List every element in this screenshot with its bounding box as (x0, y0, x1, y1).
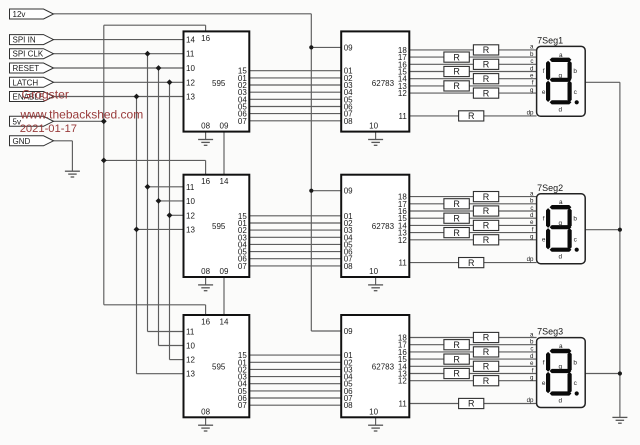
svg-text:13: 13 (186, 225, 195, 234)
svg-text:08: 08 (344, 401, 353, 410)
svg-text:b: b (573, 68, 577, 75)
svg-text:g: g (559, 72, 563, 79)
svg-text:12: 12 (398, 89, 407, 98)
svg-text:e: e (530, 73, 534, 80)
svg-text:R: R (453, 213, 460, 223)
svg-text:R: R (483, 376, 490, 386)
svg-text:13: 13 (186, 93, 195, 102)
svg-text:RESET: RESET (13, 64, 40, 73)
svg-text:e: e (530, 219, 534, 226)
svg-text:R: R (483, 60, 490, 70)
svg-text:12: 12 (186, 78, 195, 87)
svg-text:08: 08 (201, 407, 210, 416)
svg-text:11: 11 (398, 112, 407, 121)
svg-text:7Seg3: 7Seg3 (537, 327, 563, 337)
svg-text:R: R (483, 235, 490, 245)
svg-text:62783: 62783 (372, 222, 395, 231)
svg-text:R: R (483, 45, 490, 55)
svg-text:a: a (530, 190, 534, 197)
svg-text:10: 10 (369, 122, 378, 131)
svg-text:7Seg2: 7Seg2 (537, 183, 563, 193)
svg-text:08: 08 (344, 117, 353, 126)
svg-text:14: 14 (220, 318, 229, 327)
svg-text:12v: 12v (13, 10, 26, 19)
svg-text:b: b (573, 216, 577, 223)
svg-text:R: R (483, 333, 490, 343)
svg-text:07: 07 (238, 262, 247, 271)
svg-text:e: e (542, 236, 546, 243)
svg-text:10: 10 (186, 64, 195, 73)
svg-text:a: a (559, 199, 563, 206)
svg-text:R: R (483, 192, 490, 202)
svg-text:12: 12 (186, 356, 195, 365)
svg-text:f: f (532, 226, 534, 233)
svg-text:11: 11 (186, 50, 195, 59)
svg-text:11: 11 (398, 259, 407, 268)
svg-text:11: 11 (186, 183, 195, 192)
svg-text:R: R (483, 362, 490, 372)
svg-text:R: R (453, 52, 460, 62)
svg-text:10: 10 (369, 407, 378, 416)
svg-text:R: R (453, 199, 460, 209)
svg-text:g: g (530, 87, 534, 94)
svg-text:09: 09 (220, 122, 229, 131)
svg-text:595: 595 (212, 363, 226, 372)
svg-text:c: c (530, 205, 533, 212)
svg-text:f: f (532, 367, 534, 374)
svg-text:Grogster: Grogster (22, 88, 69, 102)
svg-text:12: 12 (398, 377, 407, 386)
svg-text:dp: dp (527, 109, 534, 116)
svg-text:e: e (542, 380, 546, 387)
svg-text:R: R (453, 228, 460, 238)
svg-text:www.thebackshed.com: www.thebackshed.com (20, 107, 144, 121)
svg-text:GND: GND (13, 137, 31, 146)
svg-text:b: b (530, 198, 534, 205)
svg-text:595: 595 (212, 222, 226, 231)
svg-text:LATCH: LATCH (13, 78, 39, 87)
svg-text:a: a (530, 44, 534, 51)
svg-text:R: R (483, 221, 490, 231)
svg-text:f: f (543, 216, 545, 223)
svg-text:10: 10 (369, 267, 378, 276)
svg-text:07: 07 (238, 117, 247, 126)
svg-text:09: 09 (344, 187, 353, 196)
svg-text:16: 16 (201, 177, 210, 186)
svg-text:R: R (468, 111, 475, 121)
svg-text:dp: dp (527, 397, 534, 404)
svg-text:07: 07 (238, 401, 247, 410)
svg-text:R: R (453, 369, 460, 379)
svg-text:12: 12 (398, 236, 407, 245)
svg-text:08: 08 (201, 267, 210, 276)
svg-text:R: R (453, 81, 460, 91)
svg-text:09: 09 (220, 267, 229, 276)
svg-text:b: b (530, 339, 534, 346)
svg-text:08: 08 (344, 262, 353, 271)
svg-text:d: d (559, 398, 563, 405)
svg-text:g: g (530, 234, 534, 241)
svg-text:SPI CLK: SPI CLK (13, 50, 44, 59)
svg-text:g: g (559, 220, 563, 227)
svg-text:09: 09 (344, 327, 353, 336)
svg-text:e: e (530, 360, 534, 367)
svg-text:14: 14 (186, 36, 195, 45)
svg-text:b: b (530, 51, 534, 58)
svg-text:09: 09 (344, 43, 353, 52)
svg-text:d: d (559, 106, 563, 113)
svg-text:62783: 62783 (372, 79, 395, 88)
svg-text:R: R (453, 340, 460, 350)
svg-text:d: d (559, 254, 563, 261)
svg-text:g: g (530, 375, 534, 382)
svg-text:d: d (530, 212, 534, 219)
svg-text:595: 595 (212, 79, 226, 88)
svg-text:14: 14 (220, 177, 229, 186)
svg-text:2021-01-17: 2021-01-17 (20, 123, 77, 135)
svg-text:13: 13 (186, 370, 195, 379)
svg-text:10: 10 (186, 197, 195, 206)
svg-text:f: f (543, 359, 545, 366)
svg-text:b: b (573, 359, 577, 366)
svg-text:R: R (453, 354, 460, 364)
svg-text:10: 10 (186, 342, 195, 351)
svg-text:16: 16 (201, 34, 210, 43)
svg-text:SPI IN: SPI IN (13, 36, 36, 45)
svg-text:08: 08 (201, 122, 210, 131)
svg-text:c: c (530, 346, 533, 353)
svg-text:a: a (559, 52, 563, 59)
svg-text:12: 12 (186, 211, 195, 220)
svg-text:R: R (483, 347, 490, 357)
svg-text:R: R (483, 88, 490, 98)
svg-text:16: 16 (201, 318, 210, 327)
svg-text:R: R (468, 399, 475, 409)
svg-text:R: R (483, 206, 490, 216)
svg-text:g: g (559, 364, 563, 371)
svg-text:dp: dp (527, 256, 534, 263)
svg-text:a: a (530, 331, 534, 338)
svg-text:R: R (483, 74, 490, 84)
svg-text:e: e (542, 89, 546, 96)
svg-text:a: a (559, 343, 563, 350)
svg-text:R: R (468, 258, 475, 268)
svg-text:f: f (543, 68, 545, 75)
svg-text:11: 11 (398, 400, 407, 409)
svg-text:62783: 62783 (372, 363, 395, 372)
svg-text:f: f (532, 80, 534, 87)
svg-text:R: R (453, 67, 460, 77)
svg-text:7Seg1: 7Seg1 (537, 35, 563, 45)
svg-text:d: d (530, 353, 534, 360)
svg-text:11: 11 (186, 328, 195, 337)
svg-text:c: c (530, 58, 533, 65)
svg-text:d: d (530, 65, 534, 72)
